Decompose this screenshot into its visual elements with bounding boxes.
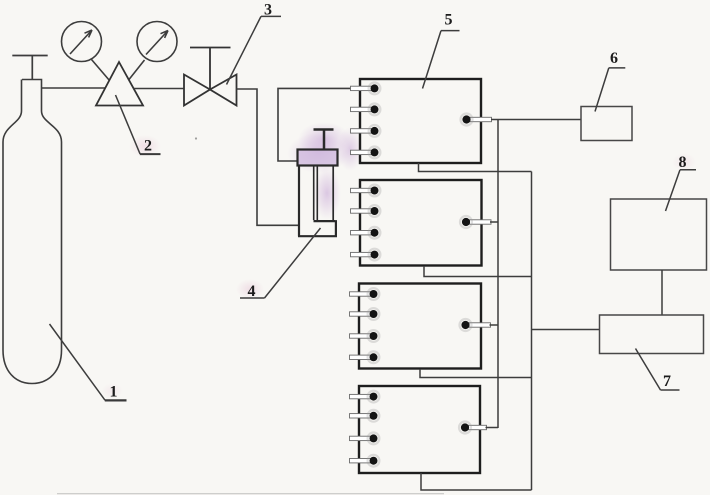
pressure regulator 2 (96, 62, 143, 106)
wire humidifier outlet to box K1 pin 1 (278, 88, 352, 161)
box K1 input pins (351, 83, 381, 159)
wire K1 output to box 6 (491, 119, 581, 121)
bottom edge scan artifact (57, 493, 444, 495)
wire cylinder to regulator (42, 87, 106, 89)
humidifier 4 cap (298, 150, 338, 166)
label 1 (50, 324, 127, 401)
svg-text:6: 6 (610, 50, 618, 67)
box K2 output connector (460, 216, 491, 228)
humidifier 4 handle (314, 130, 334, 150)
valve 3 handle (190, 48, 231, 90)
box 8 (611, 199, 707, 270)
cylinder valve handle (12, 56, 47, 80)
label 6 (595, 50, 625, 112)
box K3 output connector (460, 319, 491, 331)
box K1 (chamber 5) (360, 79, 481, 163)
box 7 (600, 315, 704, 354)
box K3 (359, 284, 481, 369)
box K4 input pins (350, 391, 380, 467)
wire valve to humidifier inlet (237, 89, 299, 225)
box K1 output connector (461, 114, 492, 126)
wire K1 bottom step to chassis bus (419, 163, 532, 172)
svg-text:1: 1 (110, 384, 118, 401)
wire K3 bottom step to chassis bus (420, 369, 532, 378)
blush artifact near label 1 (101, 383, 123, 399)
svg-text:2: 2 (144, 138, 152, 155)
blush artifact around humidifier cap (287, 122, 363, 220)
blush artifact near label 4 (236, 279, 264, 299)
pressure gauge right (137, 22, 177, 62)
box K2 input pins (351, 185, 381, 261)
label 4 (240, 228, 321, 300)
svg-text:3: 3 (264, 1, 272, 18)
blush artifact near label 2 (129, 135, 161, 157)
box K2 (360, 180, 482, 266)
box K4 (359, 386, 480, 473)
box K4 output connector (459, 422, 487, 434)
label 2 (116, 95, 161, 155)
chassis bus vertical (531, 172, 533, 491)
wire chassis bus to box 7 (532, 329, 600, 331)
output bus vertical (K2,K3,K4 outputs join K1 line) (497, 120, 499, 429)
gauge stem left (92, 60, 110, 81)
wire K2 bottom step to chassis bus (424, 266, 532, 277)
label 5 (423, 12, 460, 89)
gas cylinder 1 (3, 80, 62, 384)
valve 3 (184, 75, 237, 106)
box K3 input pins (350, 288, 380, 363)
label 3 (227, 1, 282, 84)
wire K4 bottom step to chassis bus (421, 473, 532, 490)
label 8 (666, 154, 697, 211)
gauge stem right (129, 60, 145, 80)
wire box 8 to box 7 (661, 270, 663, 315)
humidifier 4 body (298, 166, 336, 238)
wire K2 output to bus (490, 221, 498, 223)
box 6 (581, 107, 632, 141)
svg-text:5: 5 (445, 12, 453, 29)
svg-text:8: 8 (679, 154, 687, 171)
speck artifact (195, 137, 197, 139)
pressure gauge left (62, 22, 102, 62)
blush artifact near label 8 (672, 153, 696, 171)
svg-text:7: 7 (663, 373, 671, 390)
svg-text:4: 4 (248, 283, 256, 300)
wire K3 output to bus (490, 324, 499, 326)
label 7 (636, 349, 680, 391)
wire regulator to valve (134, 88, 185, 90)
wire K4 output to bus (486, 427, 499, 429)
